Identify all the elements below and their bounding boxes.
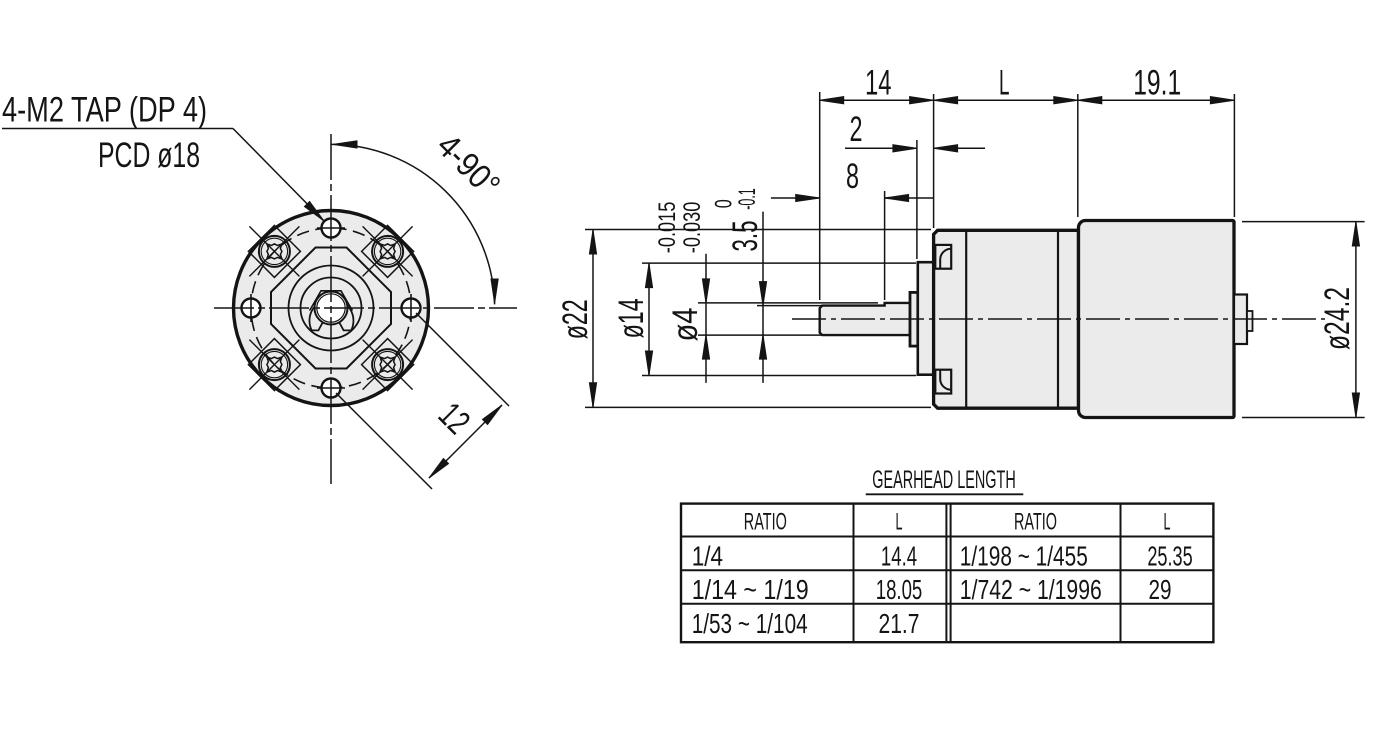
- dim 2 arrow right: [934, 145, 958, 152]
- dia4 arrow top: [702, 279, 709, 303]
- pocket diamond top-left: [248, 225, 300, 277]
- dim 8 arrow right: [885, 194, 909, 201]
- extension line shaft flat end: [884, 191, 886, 300]
- bearing circle B: [301, 278, 362, 339]
- dia4 extension bottom: [698, 334, 822, 336]
- leader diagonal: [233, 129, 324, 222]
- angle dimension arc 4-90: [331, 144, 495, 304]
- shaft chamfer circle: [317, 294, 345, 322]
- arrow 14 left: [820, 97, 844, 104]
- dim 3.5 extension top: [757, 305, 822, 307]
- pocket diamond bottom-left: [248, 339, 300, 391]
- svg-text:3.5: 3.5: [725, 221, 765, 252]
- svg-text:25.35: 25.35: [1147, 540, 1192, 571]
- row line 3: [681, 603, 1213, 605]
- column line 3: [1120, 504, 1122, 643]
- svg-text:21.7: 21.7: [879, 608, 920, 639]
- svg-text:8: 8: [846, 156, 859, 196]
- svg-text:1/53 ~ 1/104: 1/53 ~ 1/104: [692, 608, 808, 639]
- svg-text:4-M2 TAP (DP 4): 4-M2 TAP (DP 4): [2, 90, 207, 130]
- dia24.2 extension top: [1242, 221, 1365, 223]
- svg-text:L: L: [1164, 509, 1171, 536]
- extension line gearhead face: [933, 94, 935, 228]
- vertical centerline: [330, 134, 332, 484]
- arrow 19.1 right: [1210, 97, 1234, 104]
- svg-text:2: 2: [850, 109, 863, 149]
- svg-text:RATIO: RATIO: [744, 509, 787, 536]
- svg-text:ø14: ø14: [611, 298, 651, 338]
- PCD bolt circle (dashed): [251, 228, 411, 388]
- dia24.2 dimension line: [1355, 222, 1357, 417]
- dia14 extension top: [642, 262, 916, 264]
- arc arrow right: [491, 279, 498, 303]
- svg-text:1/198 ~ 1/455: 1/198 ~ 1/455: [960, 540, 1088, 571]
- shaft circle: [315, 292, 348, 325]
- arrow 14 right: [910, 97, 934, 104]
- faceplate octagon: [271, 248, 391, 369]
- shaft hex profile: [310, 291, 353, 311]
- top dimension line 14 / L / 19.1: [820, 99, 1235, 101]
- title underline: [866, 493, 1024, 495]
- dia4 dimension line: [705, 254, 707, 383]
- dim 2 arrow left: [893, 145, 917, 152]
- svg-text:19.1: 19.1: [1133, 62, 1181, 102]
- pocket diamond bottom-right: [362, 339, 414, 391]
- column double line left: [945, 504, 947, 643]
- row line 1: [681, 536, 1213, 538]
- dia22 dimension line: [592, 230, 594, 407]
- svg-text:L: L: [999, 62, 1010, 102]
- pocket fillet top: [940, 249, 951, 269]
- dia4 extension top: [698, 302, 878, 304]
- dia22 arrow top: [589, 230, 596, 254]
- dia22 arrow bottom: [589, 383, 596, 407]
- extension line motor end: [1233, 94, 1235, 217]
- tap hole right: [402, 299, 421, 318]
- screw bottom-left: [249, 340, 299, 390]
- svg-text:-0.1: -0.1: [734, 188, 761, 210]
- extension line boss front: [916, 140, 918, 259]
- horizontal centerline: [792, 318, 1325, 320]
- dia22 extension top: [585, 229, 931, 231]
- tap hole top: [322, 219, 341, 238]
- svg-text:1/4: 1/4: [692, 540, 723, 571]
- leader arrowhead: [304, 201, 326, 223]
- dim 3.5 arrow bottom: [759, 335, 766, 359]
- extension line gearhead-motor junction: [1077, 94, 1079, 217]
- svg-text:ø24.2: ø24.2: [1317, 287, 1357, 350]
- dim 12 extension line A: [416, 313, 509, 406]
- svg-text:GEARHEAD LENGTH: GEARHEAD LENGTH: [872, 466, 1016, 494]
- motor rear boss: [1234, 295, 1247, 345]
- dia14 extension bottom: [642, 375, 916, 377]
- svg-text:1/742 ~ 1/1996: 1/742 ~ 1/1996: [960, 574, 1102, 605]
- dim 12 arrow lower: [426, 458, 448, 480]
- svg-text:-0.015: -0.015: [654, 202, 681, 254]
- dia4 arrow bottom: [702, 335, 709, 359]
- dim 12 line: [429, 405, 502, 478]
- arc arrow top: [333, 141, 357, 148]
- svg-text:ø22: ø22: [555, 299, 595, 339]
- PCD tick through left hole: [250, 294, 252, 322]
- motor body: [1079, 221, 1235, 418]
- pocket fillet bottom: [940, 370, 951, 390]
- dim 8 line right part: [885, 197, 934, 199]
- mounting pocket bottom: [935, 370, 951, 394]
- gearhead rear ring line: [1057, 230, 1059, 408]
- dim 12 extension line B: [336, 393, 432, 489]
- PCD tick through top hole: [317, 227, 345, 229]
- svg-text:L: L: [896, 509, 903, 536]
- horizontal centerline: [214, 307, 517, 309]
- svg-text:18.05: 18.05: [876, 574, 923, 605]
- dia24.2 arrow top: [1352, 222, 1359, 246]
- retaining clip (horseshoe): [309, 292, 353, 330]
- svg-text:1/14 ~ 1/19: 1/14 ~ 1/19: [692, 574, 809, 605]
- mounting pocket top: [935, 245, 951, 269]
- table outer border: [681, 504, 1213, 643]
- screw top-right: [363, 226, 413, 276]
- bearing circle A: [289, 266, 374, 351]
- svg-text:PCD ø18: PCD ø18: [98, 135, 200, 175]
- arrow L left: [934, 97, 958, 104]
- dim 2 line left part: [845, 147, 917, 149]
- svg-text:14.4: 14.4: [881, 540, 917, 571]
- row line 2: [681, 569, 1213, 571]
- screw bottom-right: [363, 340, 413, 390]
- dim 2 line right part: [934, 147, 985, 149]
- dia22 extension bottom: [585, 406, 931, 408]
- dia14 arrow top: [645, 264, 652, 288]
- dim 12 arrow upper: [482, 402, 504, 424]
- gearhead body: [934, 230, 1079, 408]
- pocket diamond top-right: [362, 225, 414, 277]
- dim 8 arrow left: [796, 194, 820, 201]
- arrow L right: [1054, 97, 1078, 104]
- dia24.2 extension bottom: [1242, 417, 1365, 419]
- svg-text:29: 29: [1149, 574, 1172, 605]
- dia14 arrow bottom: [645, 351, 652, 375]
- svg-text:-0.030: -0.030: [679, 202, 706, 254]
- svg-text:ø4: ø4: [665, 308, 705, 342]
- PCD tick through bottom hole: [317, 387, 345, 389]
- column double line right: [950, 504, 952, 643]
- screw top-left: [249, 226, 299, 276]
- dim 8 line left part: [771, 197, 820, 199]
- column line 1: [853, 504, 855, 643]
- motor rear shaft tip: [1247, 311, 1253, 331]
- dim 3.5 dimension line: [762, 212, 764, 383]
- arrow 19.1 left: [1078, 97, 1102, 104]
- svg-text:RATIO: RATIO: [1014, 509, 1057, 536]
- gearhead faceplate line: [965, 230, 967, 408]
- pilot boss: [918, 262, 934, 375]
- shaft retaining washer: [910, 292, 918, 346]
- gearhead face outer circle: [234, 211, 429, 406]
- PCD tick through right hole: [410, 294, 412, 322]
- dia14 dimension line: [648, 264, 650, 375]
- svg-text:14: 14: [865, 62, 892, 102]
- tap hole left: [242, 299, 261, 318]
- dia24.2 arrow bottom: [1352, 393, 1359, 417]
- dim 3.5 arrow top: [759, 282, 766, 306]
- leader underline: [2, 128, 233, 130]
- tap hole bottom: [322, 379, 341, 398]
- extension line shaft tip: [819, 92, 821, 300]
- output shaft: [820, 303, 910, 335]
